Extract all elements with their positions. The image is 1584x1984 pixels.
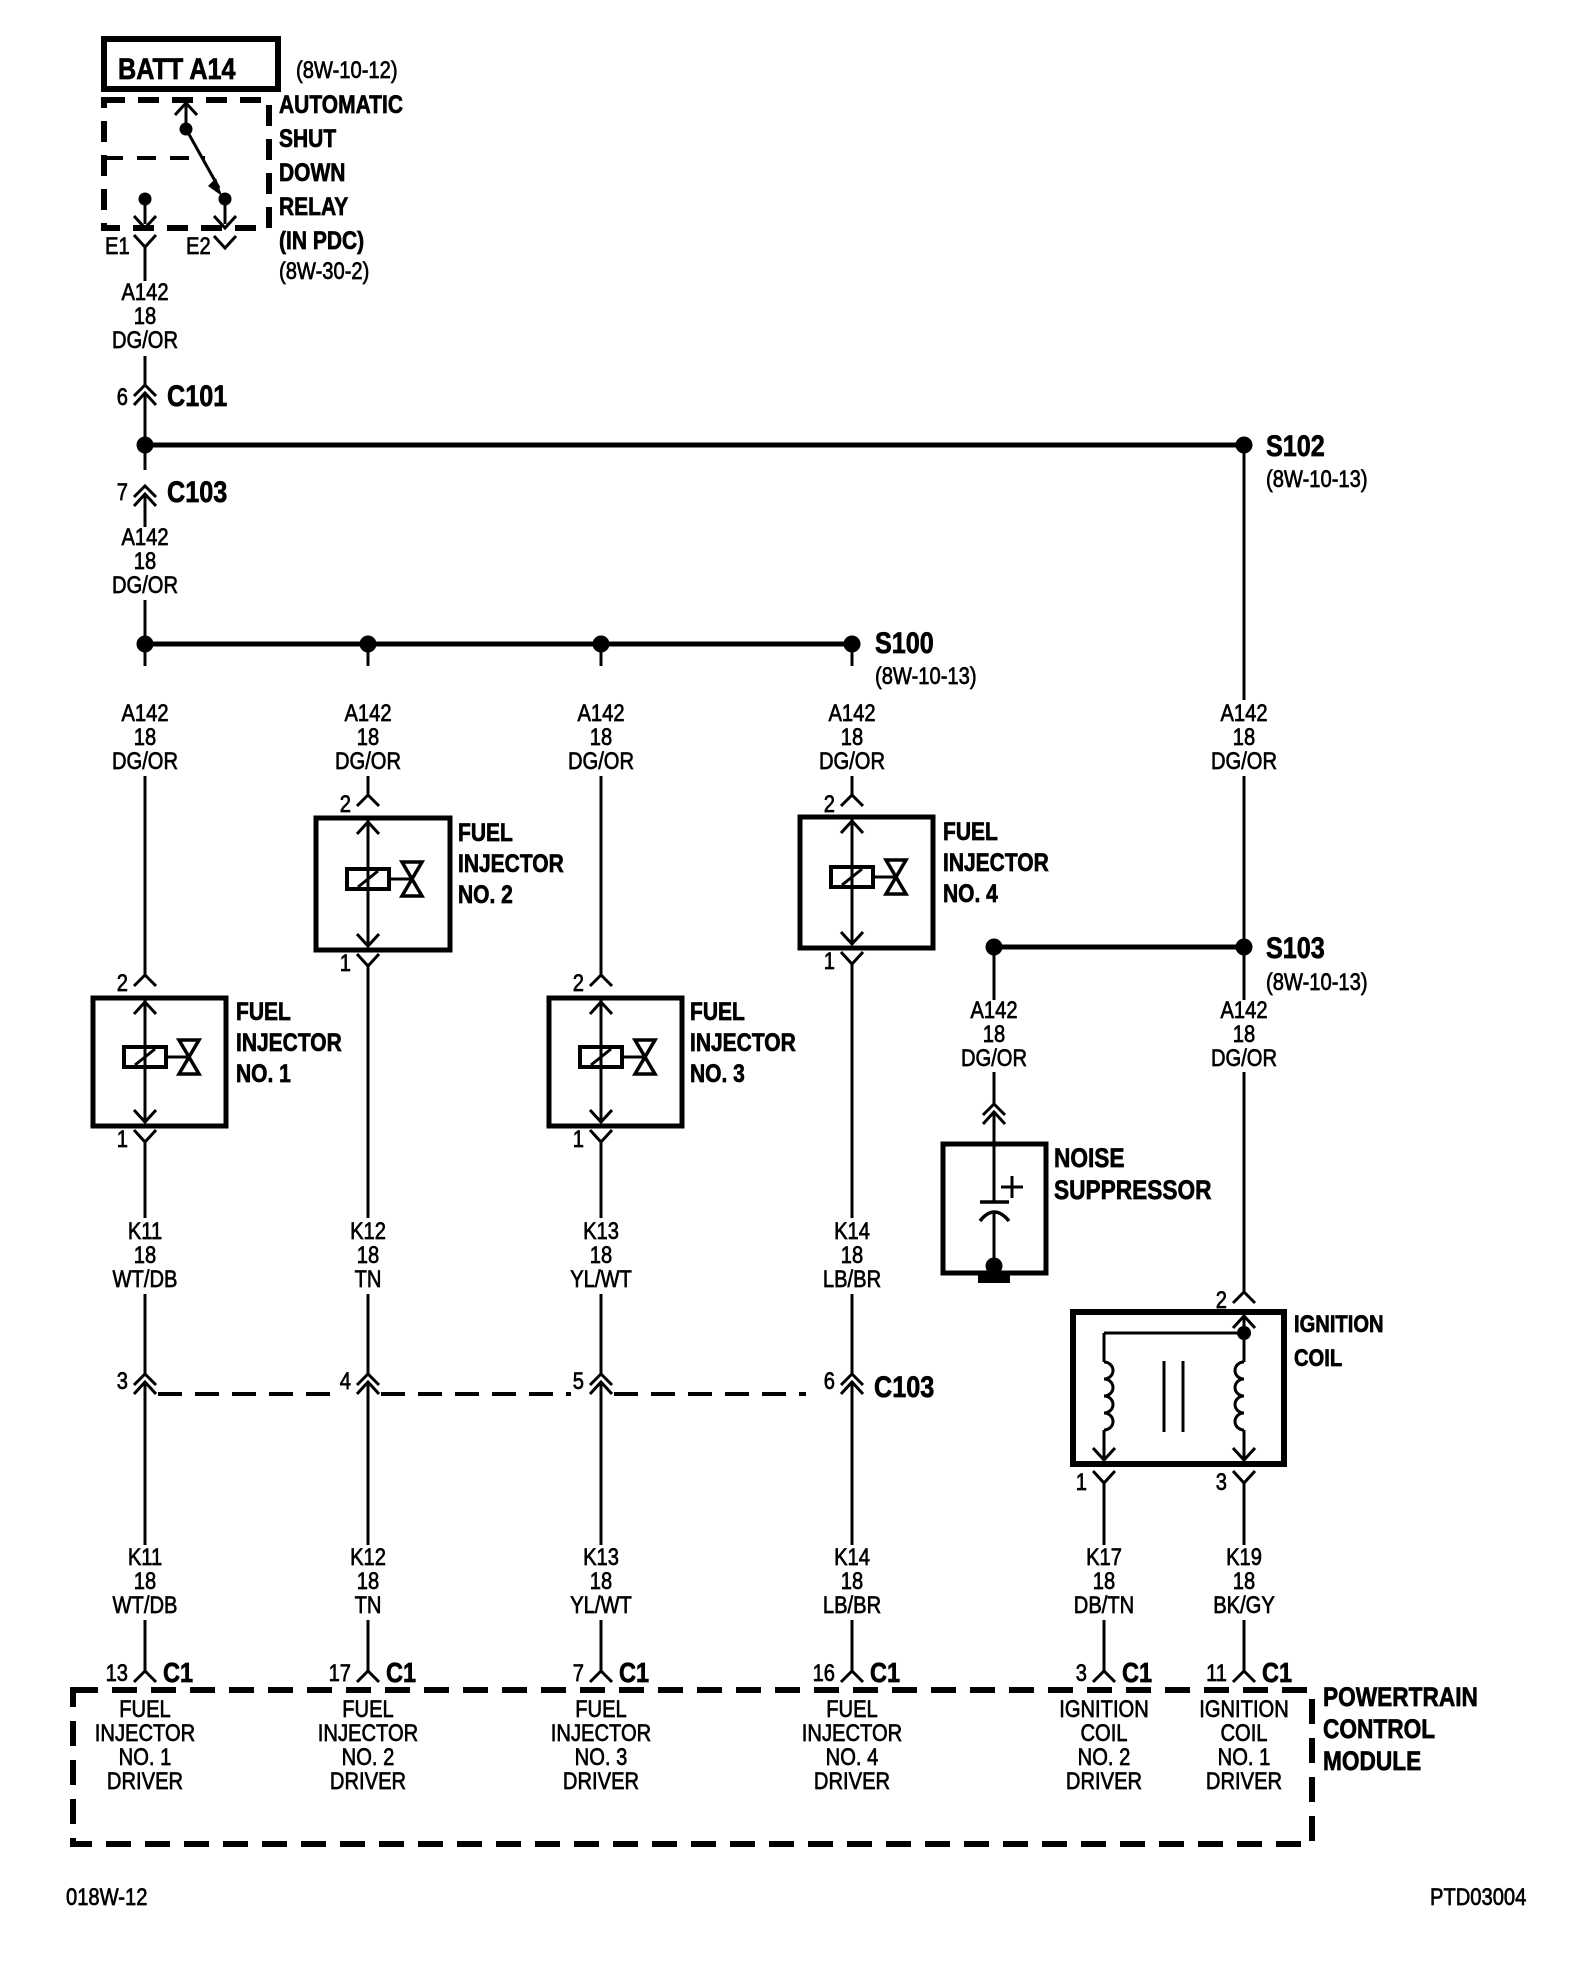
svg-text:INJECTOR: INJECTOR — [458, 849, 564, 877]
svg-text:MODULE: MODULE — [1323, 1746, 1421, 1776]
fuel injector no. 1 — [93, 997, 342, 1126]
svg-text:INJECTOR: INJECTOR — [690, 1028, 796, 1056]
svg-text:FUEL: FUEL — [458, 818, 513, 846]
svg-text:6: 6 — [117, 383, 128, 410]
wire K12 lower segment — [367, 1382, 370, 1545]
splice S103 bus — [994, 945, 1244, 950]
svg-text:C1: C1 — [870, 1658, 900, 1688]
relay switch arm — [186, 129, 222, 196]
wire segment to splice S100 — [144, 600, 147, 636]
connector C1 pin 11 — [1206, 1658, 1292, 1688]
wire label K14 18 LB/BR — [823, 1217, 881, 1292]
svg-text:DG/OR: DG/OR — [1211, 747, 1277, 774]
svg-text:(8W-10-13): (8W-10-13) — [875, 662, 977, 689]
splice S100 label — [875, 626, 977, 689]
svg-text:S102: S102 — [1266, 429, 1325, 463]
relay terminal E2 node dot — [219, 193, 232, 206]
svg-text:LB/BR: LB/BR — [823, 1591, 881, 1618]
svg-text:COIL: COIL — [1294, 1344, 1342, 1371]
svg-text:7: 7 — [117, 478, 128, 505]
svg-text:FUEL: FUEL — [236, 997, 291, 1025]
wire segment to PCM connector C1 at x=145 — [144, 1620, 147, 1671]
svg-text:16: 16 — [813, 1659, 835, 1686]
svg-text:C1: C1 — [1122, 1658, 1152, 1688]
svg-text:3: 3 — [1076, 1659, 1087, 1686]
connector C103 pin 7 — [117, 475, 227, 509]
wire segment C103 to label — [144, 494, 147, 527]
in-line connector to noise suppressor — [983, 1104, 1005, 1124]
relay K1 automatic shut down relay dashed outline — [104, 100, 269, 228]
svg-text:DRIVER: DRIVER — [1206, 1767, 1282, 1794]
svg-text:AUTOMATIC: AUTOMATIC — [279, 90, 403, 118]
svg-text:6: 6 — [824, 1367, 835, 1394]
module label POWERTRAIN CONTROL MODULE — [1323, 1682, 1478, 1776]
svg-text:3: 3 — [1216, 1468, 1227, 1495]
wire to fuel injector 1 pin 2 — [144, 776, 147, 975]
fuel injector 2 pin 1 connector — [340, 949, 379, 980]
wire K12 from injector 2 — [367, 980, 370, 1218]
wire A142 stub to ignition coil — [1243, 947, 1246, 1000]
fuel injector 3 pin 2 connector — [573, 969, 612, 996]
connector C1 pin 17 — [329, 1658, 416, 1688]
svg-text:E1: E1 — [105, 232, 130, 259]
reference (8W-10-12) — [296, 56, 398, 83]
connector C1 pin 7 — [573, 1658, 649, 1688]
svg-text:BATT A14: BATT A14 — [118, 52, 236, 86]
svg-text:DG/OR: DG/OR — [568, 747, 634, 774]
svg-text:C1: C1 — [1262, 1658, 1292, 1688]
ignition coil T1 — [1073, 1312, 1284, 1464]
wire K17 segment — [1103, 1497, 1106, 1545]
noise suppressor G1 — [943, 1144, 1046, 1273]
svg-text:NO. 2: NO. 2 — [458, 880, 513, 908]
svg-text:C1: C1 — [386, 1658, 416, 1688]
svg-text:1: 1 — [117, 1125, 128, 1152]
wire label A142 18 DG/OR column 3 — [568, 699, 634, 774]
svg-text:SHUT: SHUT — [279, 124, 336, 152]
splice S102 — [1236, 429, 1368, 492]
svg-text:DRIVER: DRIVER — [330, 1767, 406, 1794]
wire segment to PCM connector C1 at x=1244 — [1243, 1620, 1246, 1671]
fuel injector 1 pin 2 connector — [117, 969, 156, 996]
svg-text:RELAY: RELAY — [279, 192, 349, 220]
svg-text:INJECTOR: INJECTOR — [943, 848, 1049, 876]
wire K13 lower segment — [600, 1382, 603, 1545]
wire K11 from injector 1 — [144, 1157, 147, 1218]
svg-text:WT/DB: WT/DB — [113, 1265, 178, 1292]
wire segment to C103 — [144, 445, 147, 470]
connector C101 pin 6 — [117, 379, 227, 413]
svg-text:DB/TN: DB/TN — [1074, 1591, 1134, 1618]
svg-text:DG/OR: DG/OR — [112, 326, 178, 353]
fuel injector 1 pin 1 connector — [117, 1125, 156, 1157]
PCM pin label fuel injector no. 2 driver — [318, 1695, 418, 1794]
wire label A142 18 DG/OR noise suppressor branch — [961, 996, 1027, 1071]
wire A142 18 DG/OR from E1 to C101 — [144, 264, 147, 281]
noise suppressor label — [1054, 1143, 1211, 1205]
svg-text:DRIVER: DRIVER — [107, 1767, 183, 1794]
wire label K13 18 YL/WT — [570, 1217, 632, 1292]
powertrain control module dashed box — [73, 1690, 1312, 1844]
fuel injector no. 3 — [549, 997, 796, 1126]
ground node dot of noise suppressor — [986, 1258, 1003, 1275]
wire label K11 18 WT/DB — [113, 1217, 178, 1292]
svg-text:1: 1 — [573, 1125, 584, 1152]
svg-text:C1: C1 — [619, 1658, 649, 1688]
wire to fuel injector 4 pin 2 — [851, 776, 854, 795]
svg-text:S103: S103 — [1266, 931, 1325, 965]
ignition coil internal node dot — [1237, 1326, 1251, 1340]
wire segment to PCM connector C1 at x=1104 — [1103, 1620, 1106, 1671]
svg-text:S100: S100 — [875, 626, 934, 660]
wire label K13 18 YL/WT lower — [570, 1543, 632, 1618]
wire label A142 18 DG/OR column 2 — [335, 699, 401, 774]
wire K11 to C103 — [144, 1294, 147, 1374]
wire label A142 18 DG/OR column 6 — [1211, 699, 1277, 774]
wire K13 to C103 — [600, 1294, 603, 1374]
svg-text:5: 5 — [573, 1367, 584, 1394]
svg-text:E2: E2 — [186, 232, 211, 259]
wire K19 segment — [1243, 1497, 1246, 1545]
footer sheet number 018W-12 — [66, 1883, 147, 1910]
wire K14 from injector 4 — [851, 978, 854, 1218]
connector C103 pin 5 — [573, 1367, 612, 1394]
connector C103 pin 4 — [340, 1367, 379, 1394]
connector C1 pin 13 — [106, 1658, 193, 1688]
svg-text:TN: TN — [355, 1265, 382, 1292]
svg-text:FUEL: FUEL — [690, 997, 745, 1025]
power feed box BATT A14 — [104, 39, 278, 89]
svg-text:NOISE: NOISE — [1054, 1143, 1125, 1173]
svg-text:DG/OR: DG/OR — [112, 747, 178, 774]
wire label K12 18 TN lower — [350, 1543, 386, 1618]
svg-text:1: 1 — [340, 949, 351, 976]
fuel injector no. 4 — [800, 817, 1049, 948]
relay internal divider — [104, 156, 205, 160]
wire K13 from injector 3 — [600, 1157, 603, 1218]
wire to ignition coil pin 2 — [1243, 1072, 1246, 1292]
wire label A142 18 DG/OR column 1 — [112, 699, 178, 774]
svg-text:POWERTRAIN: POWERTRAIN — [1323, 1682, 1478, 1712]
svg-text:C103: C103 — [167, 475, 227, 509]
wire segment C101 to splice — [144, 393, 147, 437]
wire segment to C101 — [144, 356, 147, 385]
wire K14 lower segment — [851, 1382, 854, 1545]
wire label K19 18 BK/GY — [1213, 1543, 1275, 1618]
svg-text:NO. 1: NO. 1 — [236, 1059, 291, 1087]
splice S103 junction dots — [986, 939, 1253, 956]
svg-text:C103: C103 — [874, 1370, 934, 1404]
relay coil terminal arrow — [175, 103, 197, 129]
wire segment to PCM connector C1 at x=368 — [367, 1620, 370, 1671]
svg-text:INJECTOR: INJECTOR — [236, 1028, 342, 1056]
connector C103 pin 3 — [117, 1367, 156, 1394]
wire label K11 18 WT/DB lower — [113, 1543, 178, 1618]
wire into noise suppressor — [993, 1112, 996, 1144]
svg-text:C101: C101 — [167, 379, 227, 413]
PCM pin label ignition coil no. 2 driver — [1059, 1695, 1149, 1794]
svg-text:DRIVER: DRIVER — [814, 1767, 890, 1794]
wire to fuel injector 3 pin 2 — [600, 776, 603, 975]
svg-text:018W-12: 018W-12 — [66, 1883, 147, 1910]
svg-text:YL/WT: YL/WT — [570, 1265, 632, 1292]
svg-text:DG/OR: DG/OR — [961, 1044, 1027, 1071]
fuel injector 3 pin 1 connector — [573, 1125, 612, 1157]
fuel injector no. 2 — [316, 818, 564, 950]
svg-text:DG/OR: DG/OR — [819, 747, 885, 774]
svg-text:2: 2 — [340, 790, 351, 817]
svg-text:2: 2 — [573, 969, 584, 996]
svg-text:2: 2 — [824, 790, 835, 817]
svg-text:13: 13 — [106, 1659, 128, 1686]
wire label A142 18 DG/OR below C103 — [112, 523, 178, 598]
svg-text:NO. 4: NO. 4 — [943, 879, 998, 907]
wire label A142 18 DG/OR — [112, 278, 178, 353]
svg-text:SUPPRESSOR: SUPPRESSOR — [1054, 1175, 1211, 1205]
wire segment to PCM connector C1 at x=852 — [851, 1620, 854, 1671]
svg-text:(8W-30-2): (8W-30-2) — [279, 257, 369, 284]
PCM pin label ignition coil no. 1 driver — [1199, 1695, 1289, 1794]
wire A142 stub to noise suppressor — [993, 947, 996, 1000]
svg-text:DRIVER: DRIVER — [1066, 1767, 1142, 1794]
fuel injector 4 pin 2 connector — [824, 790, 863, 817]
fuel injector 4 pin 1 connector — [824, 947, 863, 978]
relay label AUTOMATIC SHUT DOWN RELAY (IN PDC) — [279, 90, 403, 284]
svg-text:DRIVER: DRIVER — [563, 1767, 639, 1794]
wire segment to connector — [993, 1072, 996, 1104]
PCM pin label fuel injector no. 1 driver — [95, 1695, 195, 1794]
svg-text:C1: C1 — [163, 1658, 193, 1688]
ignition coil pin 1 connector — [1076, 1468, 1115, 1497]
svg-text:CONTROL: CONTROL — [1323, 1714, 1435, 1744]
ignition coil pin 3 connector — [1216, 1468, 1255, 1497]
wire segment to PCM connector C1 at x=601 — [600, 1620, 603, 1671]
splice S100 bus — [145, 642, 852, 647]
wire A142 stub column 3 — [600, 644, 603, 666]
pin E1 connector — [105, 232, 156, 264]
svg-text:DOWN: DOWN — [279, 158, 345, 186]
svg-text:11: 11 — [1206, 1659, 1227, 1686]
splice S103 label — [1266, 931, 1368, 995]
svg-text:DG/OR: DG/OR — [112, 571, 178, 598]
ground bar — [978, 1275, 1010, 1283]
svg-text:TN: TN — [355, 1591, 382, 1618]
footer drawing number PTD03004 — [1430, 1883, 1526, 1910]
svg-text:DG/OR: DG/OR — [335, 747, 401, 774]
svg-text:17: 17 — [329, 1659, 351, 1686]
wire label K14 18 LB/BR lower — [823, 1543, 881, 1618]
wire A142 stub column 4 — [851, 644, 854, 666]
ignition coil pin 2 connector — [1216, 1286, 1255, 1313]
wire K12 to C103 — [367, 1294, 370, 1374]
wire bus to S102 — [145, 443, 1244, 448]
wire to fuel injector 2 pin 2 — [367, 776, 370, 795]
svg-text:2: 2 — [117, 969, 128, 996]
svg-text:LB/BR: LB/BR — [823, 1265, 881, 1292]
connector C103 pin 6 — [824, 1367, 934, 1403]
relay terminal E1 node dot — [139, 193, 152, 206]
svg-text:NO. 3: NO. 3 — [690, 1059, 745, 1087]
wire K11 lower segment — [144, 1382, 147, 1545]
wire label A142 18 DG/OR coil branch — [1211, 996, 1277, 1071]
svg-text:(8W-10-13): (8W-10-13) — [1266, 465, 1368, 492]
svg-text:(8W-10-13): (8W-10-13) — [1266, 968, 1368, 995]
wire A142 18 DG/OR from S102 down column 6 — [1243, 445, 1246, 700]
wire A142 stub column 1 — [144, 644, 147, 666]
connector C1 pin 16 — [813, 1658, 900, 1688]
svg-text:YL/WT: YL/WT — [570, 1591, 632, 1618]
connector C103 dashed boundary line — [158, 1392, 806, 1396]
wire label A142 18 DG/OR column 4 — [819, 699, 885, 774]
svg-text:WT/DB: WT/DB — [113, 1591, 178, 1618]
svg-text:1: 1 — [824, 947, 835, 974]
pin E2 connector — [186, 232, 236, 259]
svg-text:(IN PDC): (IN PDC) — [279, 226, 364, 254]
svg-text:4: 4 — [340, 1367, 351, 1394]
junction dot at C101 branch — [137, 437, 154, 454]
svg-text:IGNITION: IGNITION — [1294, 1310, 1384, 1337]
wire label K17 18 DB/TN — [1074, 1543, 1134, 1618]
connector C1 pin 3 — [1076, 1658, 1152, 1688]
ignition coil label — [1294, 1310, 1384, 1371]
wire E1 inside relay — [134, 199, 156, 228]
svg-text:PTD03004: PTD03004 — [1430, 1883, 1526, 1910]
svg-text:3: 3 — [117, 1367, 128, 1394]
splice S100 junction dots — [137, 636, 861, 653]
relay common node dot — [180, 123, 193, 136]
svg-text:(8W-10-12): (8W-10-12) — [296, 56, 398, 83]
wire A142 stub column 2 — [367, 644, 370, 666]
PCM pin label fuel injector no. 3 driver — [551, 1695, 651, 1794]
fuel injector 2 pin 2 connector — [340, 790, 379, 817]
wire segment to splice S103 — [1243, 776, 1246, 940]
svg-text:FUEL: FUEL — [943, 817, 998, 845]
svg-text:7: 7 — [573, 1659, 584, 1686]
svg-text:BK/GY: BK/GY — [1213, 1591, 1275, 1618]
svg-text:1: 1 — [1076, 1468, 1087, 1495]
wire label K12 18 TN — [350, 1217, 386, 1292]
PCM pin label fuel injector no. 4 driver — [802, 1695, 902, 1794]
wire K14 to C103 — [851, 1294, 854, 1374]
svg-text:DG/OR: DG/OR — [1211, 1044, 1277, 1071]
wire E2 inside relay — [214, 199, 236, 228]
